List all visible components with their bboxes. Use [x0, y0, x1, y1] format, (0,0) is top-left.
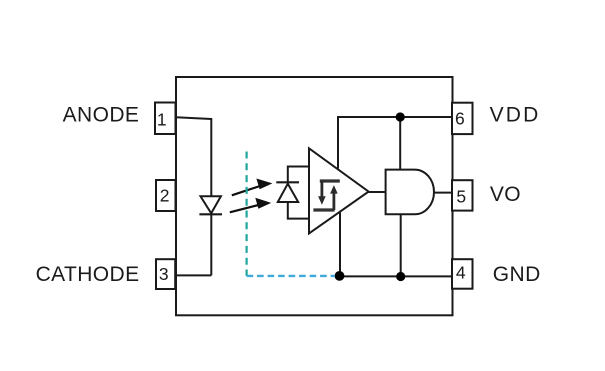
pin 5 pad — [452, 180, 473, 210]
wire gate output to pin 5 — [434, 192, 453, 194]
gate GND stub wire — [400, 215, 402, 277]
wire LED cathode vertical — [210, 214, 212, 275]
photodiode D2 — [276, 182, 299, 202]
pin 3 pad — [156, 259, 175, 289]
IC package body outline — [176, 77, 453, 315]
svg-text:2: 2 — [160, 186, 170, 206]
amplifier internal symbol: top plate — [320, 179, 340, 182]
svg-text:CATHODE: CATHODE — [36, 263, 140, 286]
svg-text:VO: VO — [490, 183, 521, 206]
photodiode cathode wire — [287, 166, 289, 183]
amplifier VDD stub wire — [337, 116, 339, 169]
amplifier internal symbol: bottom plate — [313, 208, 334, 211]
svg-text:4: 4 — [456, 263, 466, 283]
photodiode anode wire — [287, 202, 289, 220]
amplifier internal symbol: down arrow — [318, 181, 326, 205]
output gate U2 — [386, 170, 434, 215]
pin 4 pad — [452, 259, 473, 289]
svg-text:3: 3 — [159, 264, 169, 284]
svg-text:VDD: VDD — [490, 103, 541, 126]
amplifier internal symbol: up arrow — [330, 185, 338, 210]
light arrow 1 — [232, 179, 273, 196]
svg-text:ANODE: ANODE — [63, 103, 140, 126]
pin 1 pad — [155, 103, 176, 135]
svg-text:6: 6 — [455, 109, 465, 129]
pin 6 pad — [452, 103, 473, 134]
junction dot GND rail left — [335, 271, 345, 281]
svg-text:1: 1 — [157, 109, 167, 129]
junction dot VDD rail — [396, 112, 405, 121]
pin 2 pad — [156, 180, 176, 211]
junction dot GND rail right — [396, 272, 405, 281]
photodiode bracket bottom wire — [288, 218, 309, 220]
amplifier GND stub wire — [339, 213, 341, 277]
photodiode bracket top wire — [288, 166, 309, 168]
svg-text:5: 5 — [456, 186, 466, 206]
amplifier U1 triangle — [309, 148, 369, 233]
wire amplifier output to gate — [369, 191, 386, 193]
wire cathode horizontal to pin 3 — [176, 274, 212, 276]
shield dashed line vertical — [246, 152, 248, 276]
light arrow 2 — [230, 198, 271, 213]
gate VDD stub wire — [399, 117, 401, 171]
wire pin1 to LED anode (sloped) — [176, 117, 212, 119]
svg-text:GND: GND — [493, 263, 541, 286]
wire LED anode vertical — [210, 118, 212, 197]
LED emitter diode — [199, 196, 222, 214]
VDD rail horizontal wire — [337, 116, 453, 118]
shield dashed line horizontal — [247, 275, 335, 277]
GND rail horizontal wire — [340, 275, 453, 277]
